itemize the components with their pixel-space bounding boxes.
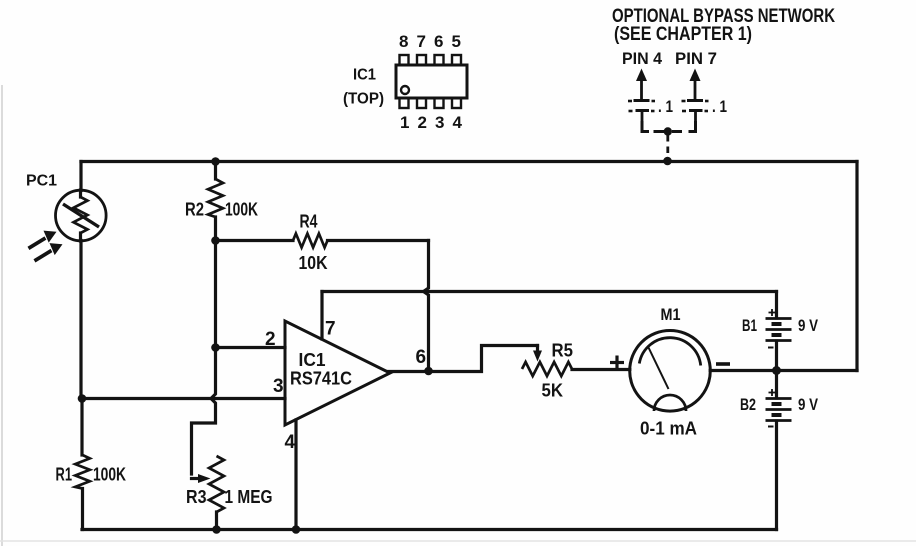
DIP pin 3 box (435, 98, 444, 108)
wire R5 wiper stem (536, 346, 539, 353)
wire meter to battery junction (710, 369, 857, 372)
node pin4 on rail (292, 525, 301, 534)
potentiometer R3 zigzag (209, 456, 224, 512)
svg-text:R4: R4 (300, 212, 318, 232)
capacitor C1 (.1) plates (634, 101, 650, 111)
resistor R2 zigzag (208, 179, 223, 217)
dashed bypass bracket right (672, 121, 696, 132)
battery B1 (766, 319, 792, 341)
node bypass center (664, 127, 672, 135)
wire left vertical upper (79, 162, 82, 191)
node R3 bottom on rail (212, 525, 221, 534)
wire left vertical middle (79, 241, 82, 399)
svg-text:7: 7 (325, 319, 336, 340)
svg-text:R5: R5 (552, 341, 574, 361)
svg-text:1 MEG: 1 MEG (225, 487, 273, 507)
wire pin2 horizontal (216, 346, 286, 349)
svg-text:B2: B2 (740, 395, 756, 414)
svg-text:100K: 100K (93, 465, 126, 485)
svg-text:100K: 100K (225, 200, 258, 220)
svg-text:R1: R1 (56, 465, 73, 485)
svg-text:PIN 4: PIN 4 (622, 49, 662, 68)
wire R4 right lead (328, 239, 429, 242)
svg-text:7: 7 (417, 32, 426, 51)
svg-text:IC1: IC1 (299, 350, 326, 370)
wire crossing hop to R3 branch (192, 348, 216, 475)
svg-text:. 1: . 1 (658, 97, 673, 116)
svg-text:10K: 10K (299, 253, 328, 273)
meter M1 circle (630, 331, 711, 412)
wire supply rail pin7 (322, 290, 777, 293)
meter M1 scale arc (639, 338, 700, 366)
wire R4 left lead (216, 239, 294, 242)
B1 plus mark (769, 309, 776, 316)
dashed drop to rail (666, 132, 669, 154)
DIP pin 8 box (400, 55, 409, 65)
svg-text:9 V: 9 V (798, 316, 819, 335)
resistor R1 zigzag (75, 455, 90, 489)
wire R2-to-pin2 vertical (214, 241, 217, 348)
bypass arrow to pin 7 (690, 69, 701, 82)
node output (424, 367, 433, 376)
node R2/R4 (211, 236, 220, 245)
B2 plus mark (769, 389, 776, 396)
svg-text:9 V: 9 V (798, 395, 819, 414)
svg-text:(SEE CHAPTER 1): (SEE CHAPTER 1) (614, 24, 752, 45)
wire pin4 vertical (294, 420, 297, 530)
meter M1 pivot bump (654, 395, 686, 411)
wire right vertical (855, 162, 858, 371)
svg-text:1: 1 (400, 113, 409, 132)
battery B2 (766, 399, 792, 421)
svg-text:(TOP): (TOP) (343, 91, 384, 108)
R5 wiper arrowhead (533, 351, 542, 362)
svg-text:6: 6 (416, 347, 427, 368)
svg-text:6: 6 (434, 32, 443, 51)
meter minus sign (716, 362, 730, 366)
svg-text:PC1: PC1 (26, 173, 57, 190)
wire top rail (81, 160, 857, 163)
svg-text:0-1 mA: 0-1 mA (640, 419, 697, 439)
DIP pin 2 box (417, 98, 426, 108)
svg-text:8: 8 (399, 32, 408, 51)
capacitor C2 flanking dashes (682, 101, 709, 111)
B2 minus mark (768, 426, 774, 428)
svg-text:B1: B1 (742, 316, 757, 335)
op-amp U1 triangle (285, 321, 390, 425)
svg-text:2: 2 (265, 329, 276, 350)
IC1 DIP package body (396, 65, 467, 98)
wire pin7 vertical (320, 292, 323, 340)
svg-text:IC1: IC1 (353, 67, 376, 84)
resistor R4 zigzag (293, 234, 328, 248)
wire R1 top lead (80, 399, 83, 456)
C1 bottom stem (641, 111, 644, 122)
svg-text:5: 5 (452, 32, 461, 51)
wire PC1 internal bottom lead (79, 233, 82, 241)
svg-text:RS741C: RS741C (290, 369, 352, 389)
svg-text:4: 4 (285, 432, 296, 453)
wire pin3 horizontal (82, 397, 285, 400)
wire B2 bottom lead (775, 421, 778, 530)
node pin2 (211, 343, 220, 352)
photocell PC1 zigzag (74, 197, 88, 233)
node R2 top on rail (211, 157, 220, 166)
light arrow 2 (34, 243, 63, 262)
DIP pin 7 box (417, 55, 426, 65)
wire R1 bottom lead (81, 489, 84, 530)
wire R2 top lead (214, 162, 217, 180)
svg-text:5K: 5K (542, 381, 564, 401)
svg-text:3: 3 (435, 113, 444, 132)
DIP pin 5 box (452, 55, 461, 65)
photocell PC1 diagonal (63, 204, 99, 227)
node bypass on rail (663, 157, 672, 166)
svg-text:PIN 7: PIN 7 (675, 49, 717, 68)
wire PC1 internal top lead (79, 190, 82, 197)
meter M1 needle (649, 348, 669, 390)
wire R4 drop with hop over supply rail (424, 241, 429, 372)
svg-text:. 1: . 1 (712, 97, 727, 116)
C2 bottom stem (694, 111, 697, 122)
DIP pin1 index circle (401, 86, 409, 94)
wire R3 bottom lead (215, 512, 218, 530)
dashed bypass bracket left (642, 121, 665, 132)
wire bottom rail (82, 528, 777, 531)
wire R2 bottom lead (214, 217, 217, 241)
svg-text:R2: R2 (185, 200, 204, 220)
potentiometer R5 zigzag (522, 362, 572, 376)
svg-text:3: 3 (273, 376, 284, 397)
svg-text:R3: R3 (186, 487, 207, 507)
capacitor C2 (.1) plates (687, 101, 703, 111)
svg-text:M1: M1 (661, 305, 681, 324)
node pin3/left (78, 394, 87, 403)
wire R5 to meter (572, 368, 630, 371)
junction node dots (78, 157, 781, 534)
node battery midpoint (772, 366, 781, 375)
DIP pin 1 box (400, 98, 409, 108)
photocell PC1 circle (56, 190, 107, 241)
wire R3 wiper lead (192, 477, 202, 480)
light arrow 1 (28, 231, 57, 250)
svg-text:2: 2 (418, 113, 427, 132)
B1 minus mark (768, 347, 774, 349)
wire B1 bottom lead (775, 341, 778, 371)
wire B1 top lead (775, 292, 778, 319)
meter plus sign (610, 356, 624, 370)
wire output (388, 346, 538, 372)
capacitor C1 flanking dashes (628, 101, 655, 111)
svg-text:4: 4 (453, 113, 463, 132)
R3 wiper arrowhead (198, 474, 211, 483)
bypass arrow to pin 4 (636, 69, 647, 82)
DIP pin 4 box (452, 98, 461, 108)
wire B2 top lead (775, 371, 778, 399)
DIP pin 6 box (435, 55, 444, 65)
